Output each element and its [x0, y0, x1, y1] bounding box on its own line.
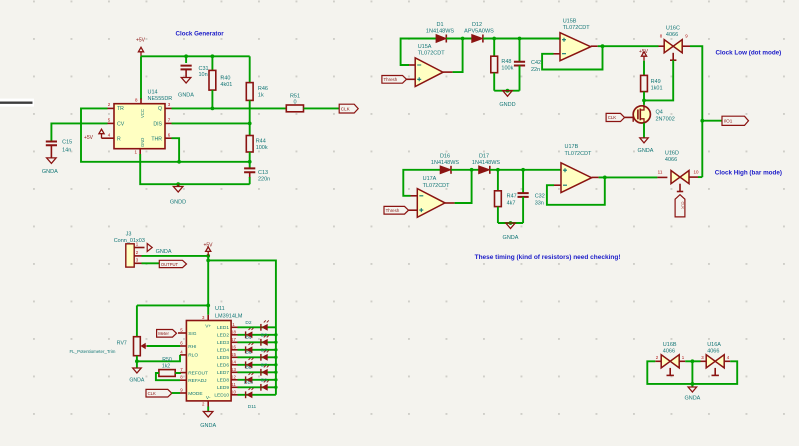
wire Q4 source to ground — [643, 123, 645, 138]
wire V- to ground — [207, 407, 209, 412]
diode D16 1N4148WS — [440, 166, 451, 174]
resistor R51 — [286, 105, 303, 112]
svg-text:CLK: CLK — [148, 391, 156, 396]
svg-text:LED2: LED2 — [217, 333, 229, 339]
svg-text:Meter: Meter — [158, 331, 169, 336]
pin 5 CV — [108, 122, 115, 124]
wire U15B feedback — [554, 53, 561, 55]
svg-text:D8: D8 — [245, 365, 251, 371]
svg-text:GNDA: GNDA — [156, 249, 172, 255]
svg-text:100k: 100k — [256, 145, 268, 151]
ground GNDA (C31) — [181, 78, 191, 84]
svg-text:LED3: LED3 — [217, 340, 229, 346]
capacitor C15 — [51, 123, 107, 141]
svg-text:4066: 4066 — [663, 348, 675, 354]
svg-text:APV5A0WS: APV5A0WS — [464, 29, 494, 35]
svg-text:U16B: U16B — [663, 342, 677, 348]
svg-text:These timing (kind of resistor: These timing (kind of resistors) need ch… — [475, 254, 621, 261]
pin 1 J3 — [134, 247, 141, 249]
svg-text:1k: 1k — [258, 93, 264, 99]
svg-text:GND: GND — [140, 138, 145, 147]
svg-text:C32: C32 — [535, 194, 545, 200]
svg-text:RHI: RHI — [188, 344, 196, 350]
wire DIS — [172, 122, 250, 124]
svg-text:2N7002: 2N7002 — [656, 117, 675, 123]
svg-text:D16: D16 — [440, 154, 450, 160]
svg-text:Thresh: Thresh — [384, 77, 398, 82]
resistor R50 — [159, 370, 175, 377]
svg-text:SIG: SIG — [188, 331, 197, 337]
LED D2 — [238, 326, 276, 328]
svg-text:LED1: LED1 — [217, 325, 229, 331]
svg-text:CLK: CLK — [681, 202, 685, 210]
svg-text:RLO: RLO — [188, 353, 198, 359]
svg-text:D17: D17 — [479, 154, 489, 160]
svg-text:R49: R49 — [651, 79, 661, 85]
wire GND rail (555) — [140, 154, 250, 184]
svg-text:LED7: LED7 — [217, 370, 229, 376]
svg-text:GNDA: GNDA — [200, 423, 216, 429]
svg-text:C13: C13 — [258, 170, 268, 176]
wire U17B feedback — [554, 184, 561, 186]
LED D10 — [238, 386, 276, 388]
svg-text:1N4148WS: 1N4148WS — [472, 160, 500, 166]
wire TR loop — [81, 108, 250, 161]
IC U14 NE555DR — [114, 104, 165, 149]
pin 3 V+ — [207, 315, 209, 321]
pin 6 RHI — [180, 345, 186, 347]
capacitor C13 — [244, 168, 255, 172]
LED D3 — [238, 334, 276, 336]
label Meter (SIG) — [157, 330, 177, 338]
svg-text:CLK: CLK — [608, 115, 617, 120]
resistor R47 — [496, 168, 500, 172]
analog switch U16B 4066 — [661, 355, 679, 368]
svg-text:LED5: LED5 — [217, 355, 229, 361]
resistor R49 — [643, 61, 645, 76]
svg-text:U17B: U17B — [565, 144, 579, 150]
op-amp U15A — [415, 58, 443, 87]
LED D11 — [238, 394, 276, 396]
svg-text:D1: D1 — [436, 22, 443, 28]
svg-text:Clock Low (dot mode): Clock Low (dot mode) — [716, 49, 782, 56]
connector J3 Conn_01x03 — [126, 244, 134, 267]
svg-text:GNDA: GNDA — [503, 235, 519, 241]
pin 7 DIS — [165, 122, 172, 124]
svg-text:THR: THR — [151, 136, 162, 142]
wire U17A output — [445, 202, 455, 204]
pin 2 V- — [207, 401, 209, 407]
svg-text:U17A: U17A — [423, 176, 437, 182]
svg-text:DIS: DIS — [153, 122, 162, 128]
transistor Q4 2N7002 — [633, 106, 650, 123]
LED D7 — [238, 364, 276, 366]
wire D17 to U17B — [490, 169, 561, 171]
pin 17 LED3 — [231, 341, 237, 343]
wire THR — [172, 138, 180, 162]
resistor R44 — [246, 136, 253, 153]
svg-text:GNDA: GNDA — [129, 377, 145, 383]
pin 10 LED10 — [231, 394, 237, 396]
svg-text:1N4148WS: 1N4148WS — [431, 160, 459, 166]
svg-text:R47: R47 — [507, 194, 517, 200]
svg-text:TR: TR — [117, 106, 124, 112]
wire U16C control to Q4 — [644, 60, 673, 100]
label OUTPUT — [159, 260, 186, 267]
power +5V (LM3914) — [206, 247, 211, 256]
wire to IO label — [700, 119, 704, 123]
svg-text:MODE: MODE — [188, 391, 202, 397]
svg-text:U16D: U16D — [665, 151, 679, 157]
wire RV7 top rail — [137, 304, 208, 306]
pin 7 REFOUT — [180, 372, 186, 374]
svg-text:4k7: 4k7 — [507, 200, 516, 206]
capacitor C31 — [185, 56, 187, 63]
wire switch center to ground — [685, 360, 700, 362]
pin 12 LED8 — [231, 379, 237, 381]
svg-text:R48: R48 — [501, 59, 511, 65]
wire +5V rail top — [141, 55, 250, 57]
svg-text:22n: 22n — [531, 67, 540, 73]
svg-text:LED10: LED10 — [214, 393, 229, 399]
svg-text:V-: V- — [206, 395, 211, 401]
svg-text:LED8: LED8 — [217, 378, 229, 384]
svg-text:VCC: VCC — [140, 109, 145, 118]
ground GNDA (RV7) — [133, 368, 142, 373]
svg-text:1N4148WS: 1N4148WS — [426, 29, 454, 35]
LED D6 — [238, 356, 276, 358]
wire CLK to MODE — [172, 392, 180, 394]
resistor R46 — [249, 56, 251, 82]
svg-text:15: 15 — [231, 352, 236, 357]
wire R50 to REFOUT — [175, 372, 180, 374]
svg-text:12: 12 — [231, 374, 236, 379]
wire U15B output — [591, 45, 598, 47]
wire (off-sheet selected line) — [0, 99, 34, 107]
svg-text:R50: R50 — [162, 357, 172, 363]
svg-text:+5V: +5V — [136, 38, 146, 44]
label (U16D control, vertical) — [675, 195, 685, 217]
op-amp U17B — [561, 163, 592, 193]
svg-text:CV: CV — [117, 122, 125, 128]
svg-text:4066: 4066 — [666, 32, 678, 38]
svg-text:+5V: +5V — [84, 135, 94, 141]
svg-text:U16C: U16C — [666, 26, 680, 32]
pin 18 LED2 — [231, 334, 237, 336]
svg-text:R40: R40 — [220, 76, 230, 82]
resistor R40 — [211, 56, 213, 70]
svg-text:C42: C42 — [531, 60, 541, 66]
svg-text:D2: D2 — [245, 320, 251, 326]
wire U17B output — [592, 176, 599, 178]
svg-text:GNDD: GNDD — [499, 102, 515, 108]
ground GNDD (chain1) — [503, 91, 512, 97]
pin 16 LED4 — [231, 349, 237, 351]
svg-text:REFOUT: REFOUT — [188, 370, 208, 376]
IC U11 LM3914 — [186, 321, 231, 401]
svg-text:GNDA: GNDA — [178, 93, 194, 99]
ground GNDA (U11) — [203, 412, 213, 418]
svg-text:LED4: LED4 — [217, 348, 229, 354]
svg-text:1k01: 1k01 — [651, 86, 663, 92]
pin 5 U16A control — [714, 368, 716, 376]
svg-text:D12: D12 — [472, 22, 482, 28]
svg-text:GNDA: GNDA — [638, 148, 654, 154]
svg-text:+5V: +5V — [639, 49, 649, 55]
wire chain2 ground node — [498, 222, 523, 224]
svg-text:Clock Generator: Clock Generator — [176, 31, 225, 38]
svg-text:GNDD: GNDD — [170, 200, 186, 206]
pin 8 VCC — [140, 99, 142, 104]
resistor R48 — [492, 37, 496, 41]
svg-text:Thresh: Thresh — [386, 208, 400, 213]
pin 3 Q — [165, 107, 172, 109]
power +5V (Q4 pull-up) — [641, 52, 646, 61]
LED D4 — [238, 341, 276, 343]
wire RLO to RV7 bottom — [137, 355, 180, 361]
svg-text:0: 0 — [293, 100, 296, 106]
svg-text:TL072CDT: TL072CDT — [423, 183, 451, 189]
ground GNDA (chain2) — [506, 223, 515, 229]
pin 6 U16C control — [672, 53, 674, 60]
svg-text:1k2: 1k2 — [162, 364, 170, 370]
pin 3 J3 — [134, 262, 141, 264]
svg-text:LM3914LM: LM3914LM — [215, 314, 243, 320]
wire J3 pin2 to +5V — [142, 255, 209, 257]
power +5V (clock) — [138, 47, 143, 56]
wire RV7 wiper to RHI — [147, 345, 180, 347]
diode D17 1N4148WS — [479, 166, 490, 174]
wire U16C output bus — [690, 46, 702, 177]
wire D12 to U15B — [483, 38, 560, 40]
svg-text:U15B: U15B — [563, 18, 577, 24]
svg-text:16: 16 — [231, 344, 236, 349]
ground GNDA (C15) — [47, 158, 57, 164]
wire U15A feedback — [409, 64, 415, 66]
svg-text:10: 10 — [693, 170, 699, 175]
svg-text:4066: 4066 — [665, 157, 677, 163]
capacitor C42 — [518, 37, 522, 41]
analog switch U16D 4066 — [657, 176, 667, 178]
op-amp U17A — [417, 189, 445, 218]
svg-text:TL072CDT: TL072CDT — [565, 151, 593, 157]
pin 8 REFADJ — [180, 379, 186, 381]
pin 13 U16B control — [669, 368, 671, 376]
svg-text:REFADJ: REFADJ — [188, 378, 207, 384]
wire J3 pin3 to OUTPUT label — [142, 262, 160, 264]
svg-text:4066: 4066 — [707, 348, 719, 354]
wire LED supply rail — [208, 260, 276, 394]
pin 9 MODE — [180, 392, 186, 394]
power +5V (reset pin) — [99, 129, 104, 138]
pin 13 LED7 — [231, 371, 237, 373]
svg-text:10n: 10n — [199, 72, 208, 78]
svg-text:10: 10 — [231, 389, 236, 394]
svg-text:4k01: 4k01 — [220, 82, 232, 88]
svg-text:17: 17 — [231, 337, 236, 342]
pin 1 LED1 — [231, 326, 237, 328]
svg-text:220n: 220n — [258, 177, 270, 183]
svg-text:J3: J3 — [126, 232, 132, 238]
op-amp U15B — [560, 33, 591, 61]
svg-text:TL072CDT: TL072CDT — [563, 25, 591, 31]
pin 5 SIG — [180, 332, 186, 334]
pin 4 RLO — [180, 354, 186, 356]
svg-text:TL072CDT: TL072CDT — [418, 51, 446, 57]
svg-text:LED9: LED9 — [217, 385, 229, 391]
wire RC ground node — [494, 90, 519, 92]
svg-text:U11: U11 — [215, 306, 225, 312]
svg-text:RV7: RV7 — [117, 341, 127, 347]
analog switch U16C 4066 — [659, 45, 665, 47]
svg-text:GNDA: GNDA — [42, 169, 58, 175]
ground GNDA (Q4) — [640, 138, 648, 143]
pin 4 R — [108, 137, 115, 139]
pin 1 GND — [139, 149, 141, 155]
LED D9 — [238, 379, 276, 381]
svg-text:Clock High (bar mode): Clock High (bar mode) — [715, 170, 782, 177]
ground GNDA (switches) — [688, 387, 697, 392]
diode D12 APV5A0WS — [472, 35, 483, 43]
svg-text:11: 11 — [658, 170, 663, 175]
svg-text:13: 13 — [231, 367, 236, 372]
svg-text:100k: 100k — [501, 66, 513, 72]
svg-text:14: 14 — [231, 359, 236, 364]
label Thresh (chain1 input) — [382, 76, 407, 84]
svg-text:U14: U14 — [148, 90, 158, 96]
label CLK (MODE pin) — [146, 389, 172, 397]
label CLK (Q4 gate) — [606, 113, 624, 121]
ground GNDA (J3, rotated) — [142, 247, 145, 249]
potentiometer RV7 — [136, 305, 138, 336]
LED D8 — [238, 371, 276, 373]
pin 11 LED9 — [231, 386, 237, 388]
svg-text:GNDA: GNDA — [684, 396, 700, 402]
pin 6 THR — [165, 137, 172, 139]
svg-text:D4: D4 — [245, 335, 251, 341]
svg-text:R: R — [117, 136, 121, 142]
svg-text:LED6: LED6 — [217, 363, 229, 369]
label CLK (clock gen output) — [339, 104, 358, 113]
svg-text:V+: V+ — [205, 324, 211, 330]
svg-text:D6: D6 — [245, 350, 251, 356]
svg-text:D11: D11 — [248, 404, 257, 410]
ground GNDD (555) — [177, 184, 179, 186]
svg-text:OUTPUT: OUTPUT — [161, 262, 179, 267]
svg-text:U16A: U16A — [707, 342, 721, 348]
svg-text:33n: 33n — [535, 200, 544, 206]
svg-text:18: 18 — [231, 329, 236, 334]
pin 2 J3 — [134, 255, 141, 257]
svg-text:D10: D10 — [244, 380, 253, 386]
svg-text:14n: 14n — [62, 148, 71, 154]
svg-text:Q4: Q4 — [656, 110, 663, 116]
svg-text:FL_Potentiometer_Trim: FL_Potentiometer_Trim — [70, 349, 116, 354]
label I/O1 (output) — [722, 116, 749, 125]
wire U17A feedback — [411, 195, 418, 197]
svg-text:Conn_01x03: Conn_01x03 — [114, 238, 145, 244]
wire R50 to REFADJ — [156, 373, 180, 380]
wire U15A output — [443, 71, 453, 73]
pin 12 U16D control — [679, 184, 681, 192]
LED D5 — [238, 349, 276, 351]
svg-text:11: 11 — [231, 382, 236, 387]
capacitor C32 — [521, 168, 525, 172]
svg-text:R46: R46 — [258, 86, 268, 92]
analog switch U16A 4066 — [706, 355, 724, 368]
pin 15 LED5 — [231, 356, 237, 358]
svg-text:+5V: +5V — [203, 242, 213, 248]
diode D1 1N4148WS — [436, 35, 446, 43]
svg-text:C15: C15 — [62, 140, 72, 146]
svg-text:I/O1: I/O1 — [724, 119, 733, 124]
pin 14 LED6 — [231, 364, 237, 366]
svg-text:U15A: U15A — [418, 44, 432, 50]
wire +5V trunk — [207, 256, 209, 315]
svg-text:Q: Q — [158, 106, 162, 112]
svg-text:CLK: CLK — [341, 106, 351, 111]
svg-text:R44: R44 — [256, 139, 266, 145]
pin 2 TR — [108, 107, 115, 109]
wire Q output — [172, 107, 287, 109]
wire switch loop — [647, 361, 737, 384]
label Travel (chain2 input) — [384, 206, 409, 214]
